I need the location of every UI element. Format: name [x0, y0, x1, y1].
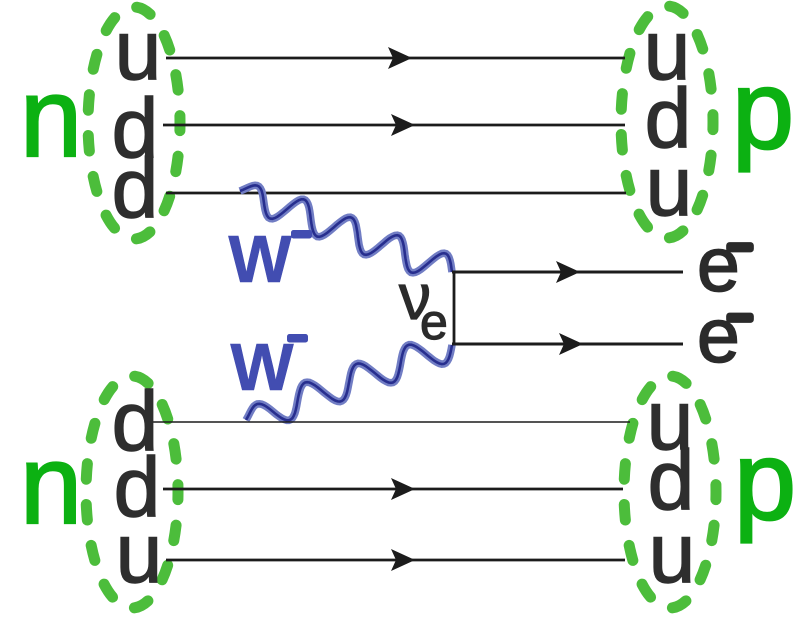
quark line d->u (bottom, line 1, W vertex) — [153, 421, 630, 423]
svg-text:d: d — [112, 141, 159, 235]
arrowhead on bottom line 2 — [391, 478, 415, 500]
svg-text:W: W — [228, 222, 292, 297]
arrowhead on bottom electron line — [559, 333, 583, 355]
svg-text:n: n — [20, 422, 82, 547]
quark line d->d (bottom, line 2) — [163, 488, 623, 491]
electron line (top e-) — [452, 271, 683, 274]
svg-text:u: u — [116, 506, 163, 600]
label W- (top boson) — [228, 222, 312, 297]
W- boson wavy propagator (top) — [240, 185, 452, 272]
arrowhead on top electron line — [556, 261, 580, 283]
Majorana neutrino propagator (vertical line) — [453, 272, 456, 344]
label nu_e (exchanged neutrino) — [399, 261, 448, 350]
electron line (bottom e-) — [452, 343, 683, 346]
quark line d->d (top, line 2) — [163, 124, 625, 127]
quark line u->u (bottom, line 3) — [166, 559, 625, 562]
arrowhead on top line 1 — [388, 47, 412, 69]
label e- (top electron) — [697, 222, 753, 308]
label W- (bottom boson) — [230, 330, 308, 405]
svg-text:n: n — [20, 55, 82, 180]
hadron boundary ellipse: final proton (bottom) — [624, 376, 716, 608]
quark line u->u (top, line 1) — [166, 57, 625, 60]
hadron boundary ellipse: final proton (top) — [621, 6, 713, 238]
svg-text:e: e — [420, 294, 448, 350]
svg-text:u: u — [649, 506, 696, 600]
label e- (bottom electron) — [697, 293, 753, 379]
arrowhead on bottom line 3 — [391, 549, 415, 571]
svg-text:e: e — [697, 293, 740, 379]
hadron boundary ellipse: initial neutron (top) — [88, 7, 180, 239]
quark line d->u (top, line 3, W vertex) — [166, 192, 626, 195]
svg-text:u: u — [646, 139, 693, 233]
svg-text:p: p — [732, 47, 794, 172]
svg-text:W: W — [230, 330, 294, 405]
W- boson wavy propagator (bottom) — [246, 345, 452, 421]
hadron boundary ellipse: initial neutron (bottom) — [86, 376, 178, 608]
arrowhead on top line 2 — [391, 114, 415, 136]
svg-text:p: p — [734, 418, 796, 543]
